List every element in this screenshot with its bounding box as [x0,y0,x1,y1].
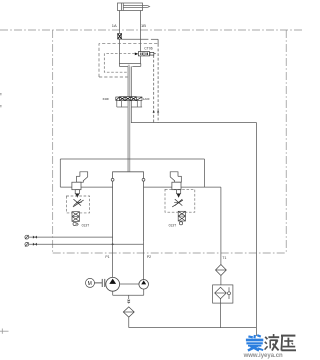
svg-text:T1: T1 [222,256,226,260]
manifold block (open bottom) [113,172,144,242]
counterbalance valve CT06 [135,52,156,56]
reducing valve assembly right (mirrored) [165,172,195,225]
enclosure boundary bottom edge [53,252,287,254]
motor M [86,278,95,287]
svg-text:P2: P2 [147,255,151,259]
wire: gray pipe band from T-junction to rail [128,65,130,172]
union connector [127,300,130,303]
wire: P2 drop to pump2 [143,242,145,280]
drain line X (dashed) with arrow [157,44,159,123]
cylinder 1 body [118,3,143,11]
svg-text:M: M [88,281,92,287]
wire: filter box to tank line [219,303,221,328]
wire: tank return line [131,66,256,336]
wire: cylinder left port line (A) [118,11,120,64]
T junction (double-line pipe header) [119,64,140,67]
svg-text:1B: 1B [141,23,146,28]
wire: T1 to filter box [220,276,222,285]
svg-text:630F: 630F [103,97,110,101]
orifice/check component on A line [118,33,122,39]
wire: branch line from orifice to drain corner [122,39,159,44]
svg-text:013T: 013T [169,223,177,227]
wire: tank line [129,327,257,329]
gauge line 1 [25,235,113,239]
dashed group box A (counterbalance assembly) [99,44,158,77]
gray glyph ye [265,334,280,351]
pump P2 [139,280,149,290]
svg-text:013T: 013T [82,224,90,228]
svg-text:1A0F: 1A0F [143,97,150,101]
suction strainer [123,307,134,317]
pump link shaft [120,283,139,285]
wire: jog from rail corner to T1 column [220,187,222,264]
gauge line 2 [25,242,144,246]
gray glyph ya [281,336,296,351]
enclosure boundary left edge [52,30,54,253]
pilot line (dashed) of CT06 [104,54,135,72]
blue glyph ai [246,335,263,351]
wire: CT06 bottom to T junction [140,56,142,64]
sheet edge marks [0,94,9,334]
reducing valve assembly left [66,172,89,226]
directional valve 600F (4/3 solenoid) [116,97,142,101]
port circle left [111,178,114,181]
watermark iyeya [243,334,296,359]
cylinder rod [123,6,149,8]
svg-text:P1: P1 [105,255,109,259]
return filter with bypass [213,285,233,303]
enclosure boundary right edge [285,30,287,253]
svg-text:www.iyeya.cn: www.iyeya.cn [243,353,283,359]
pump P1 [106,277,120,291]
wire: P1 drop to pump1 [112,242,114,278]
shaft and coupling [95,279,105,287]
svg-text:1A: 1A [112,23,117,28]
port circle right [142,178,145,181]
valve subplate [117,101,142,107]
check/filter diamond on T1 [216,265,227,276]
drain line Y (dashed) with arrow [153,55,155,123]
centerline (horizontal dash-dot at y=30) [0,29,302,31]
wire: strainer to tank line [128,317,130,328]
wire: cylinder right port line (B) [140,11,142,52]
svg-text:CT06: CT06 [144,46,152,50]
wire: rail from pipe to both sides [60,159,221,187]
suction manifold [113,289,144,299]
cylinder piston [121,3,123,11]
